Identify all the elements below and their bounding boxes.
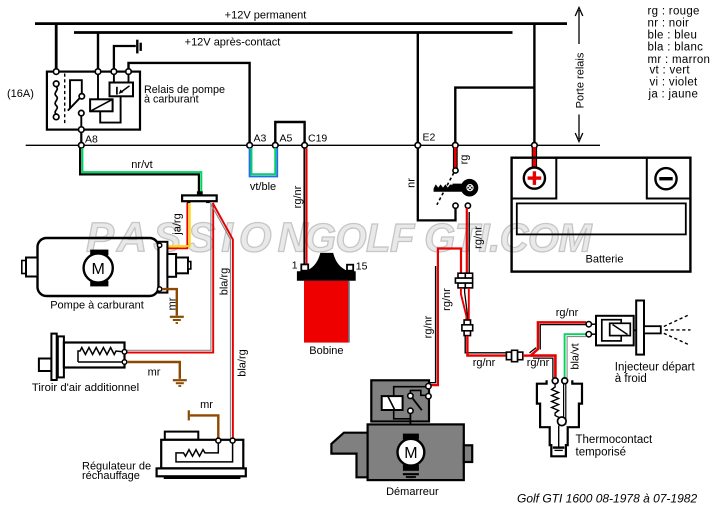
svg-text:M: M — [404, 445, 417, 462]
tiroir terminal circles — [122, 350, 127, 355]
wire bla/rg from bar to regulateur — [210, 203, 230, 438]
svg-text:temporisé: temporisé — [576, 447, 627, 459]
svg-text:nr/vt: nr/vt — [131, 159, 152, 171]
regulateur internal resistor — [176, 443, 233, 462]
demarreur left bracket — [331, 433, 367, 478]
svg-text:rg/nr: rg/nr — [556, 307, 579, 319]
wire rg/nr connector 3 to branch — [523, 354, 531, 356]
wire bla/vt thermocontact to injecteur — [565, 334, 587, 378]
wire rail2 to node E2 — [417, 33, 419, 146]
wire node A5 to node C19 bracket — [275, 122, 304, 145]
svg-text:mr: mr — [200, 399, 213, 411]
wire rg branch to demarreur and connector 1 — [431, 249, 461, 386]
injecteur spray dashes — [664, 315, 691, 345]
svg-text:vt : vert: vt : vert — [650, 64, 691, 76]
svg-text:à carburant: à carburant — [144, 94, 199, 106]
battery box — [512, 158, 691, 272]
svg-text:bla/vt: bla/vt — [570, 343, 582, 369]
demarreur solenoid coil — [382, 396, 403, 410]
bobine pin 15 — [347, 265, 353, 271]
svg-text:rg/nr: rg/nr — [423, 315, 435, 338]
connector bar (junction strip) — [197, 191, 203, 195]
thermocontact pin circles — [552, 378, 558, 384]
regulateur de rechauffage body — [165, 432, 199, 440]
wire rail1 to battery feed — [533, 24, 535, 146]
svg-text:bla : blanc: bla : blanc — [648, 42, 704, 54]
wire mr from tiroir to ground — [127, 362, 187, 386]
wire battery feed to ignition key feed — [455, 88, 534, 146]
thermocontact heater resistor — [552, 384, 560, 418]
svg-text:nr : noir: nr : noir — [648, 17, 690, 29]
demarreur solenoid contact circles — [408, 384, 431, 414]
wire rail2 to relay pin 2 — [97, 33, 99, 72]
bus line (plate rail) — [26, 144, 600, 146]
svg-text:rg/nr: rg/nr — [441, 288, 453, 311]
bobine black cap — [297, 253, 356, 281]
svg-text:vt/ble: vt/ble — [250, 181, 276, 193]
connector 2 inline connector — [462, 320, 473, 336]
svg-text:Démarreur: Démarreur — [386, 486, 439, 498]
svg-text:mr: mr — [166, 297, 178, 310]
wire bla/rg from bar to tiroir — [127, 203, 211, 350]
wire +12V permanent rail — [35, 22, 567, 25]
svg-text:15: 15 — [356, 261, 368, 273]
node A3 — [247, 143, 253, 149]
wire nr from E2 to key — [418, 148, 456, 220]
regulateur terminal circles — [216, 438, 221, 443]
wire rail1 to relay pin 1 — [55, 24, 58, 72]
wire rg to key top contact — [453, 147, 458, 169]
wire ja/rg from bar to pump — [162, 203, 187, 248]
svg-text:(16A): (16A) — [7, 88, 34, 100]
injecteur pin stubs — [592, 323, 597, 325]
demarreur motor M — [398, 439, 425, 466]
svg-text:ja/rg: ja/rg — [172, 213, 184, 235]
svg-text:rg: rg — [459, 155, 471, 165]
thermocontact contact circle — [558, 417, 567, 426]
thermocontact body outline — [537, 380, 582, 456]
svg-text:bla/rg: bla/rg — [237, 349, 249, 377]
injecteur pin circles — [586, 322, 591, 327]
connector 1 double inline connector — [455, 273, 472, 288]
svg-text:rg/nr: rg/nr — [292, 185, 304, 208]
wires connector 1 to connector 2 — [461, 288, 467, 320]
svg-text:bla/rg: bla/rg — [219, 268, 231, 296]
svg-text:M: M — [92, 261, 105, 278]
svg-text:mr: mr — [148, 367, 161, 379]
svg-text:Injecteur départ: Injecteur départ — [615, 362, 696, 374]
wire rg/nr branch to thermocontact — [531, 356, 555, 378]
pump motor M — [84, 253, 113, 282]
svg-text:rg/nr: rg/nr — [473, 226, 485, 249]
wire mr from pump to ground — [162, 289, 184, 323]
relay pin circles — [53, 69, 131, 133]
demarreur solenoid internal wires — [394, 387, 426, 434]
ignition key dashed actuator — [437, 173, 454, 205]
demarreur motor brushes — [403, 434, 419, 440]
wire relay pin A8 to bus — [80, 132, 82, 143]
wire vt/ble from A3 to A5 — [250, 148, 278, 176]
injecteur body — [596, 316, 634, 346]
node battery feed — [532, 143, 538, 149]
thermocontact lower electrode — [558, 426, 560, 447]
svg-text:1: 1 — [292, 260, 298, 272]
node A8 — [79, 143, 85, 149]
svg-text:ble : bleu: ble : bleu — [648, 29, 698, 41]
svg-text:Tiroir d'air additionnel: Tiroir d'air additionnel — [32, 382, 139, 394]
relay K1 ground symbol — [114, 40, 141, 69]
fuel pump body — [38, 238, 159, 296]
wire relay pin 4 to node A3 — [129, 63, 250, 145]
svg-text:Thermocontact: Thermocontact — [576, 434, 654, 446]
pump inlet left — [22, 261, 26, 274]
pump motor brushes — [90, 250, 108, 256]
bobine red body — [304, 281, 349, 343]
battery plus terminal — [524, 168, 545, 189]
ignition key silhouette — [434, 184, 462, 192]
injecteur flange — [634, 329, 637, 331]
svg-text:Bobine: Bobine — [309, 345, 343, 357]
thermocontact bimetal strip — [563, 384, 565, 425]
svg-text:nr: nr — [406, 178, 418, 188]
battery minus terminal — [655, 168, 676, 189]
svg-text:E2: E2 — [423, 132, 436, 144]
node circles on bus — [79, 143, 538, 149]
svg-text:+12V après-contact: +12V après-contact — [185, 37, 281, 49]
relay K1 fuel pump relay box — [47, 72, 140, 130]
porte relais down arrow — [575, 115, 583, 142]
relay coil — [97, 74, 99, 99]
svg-text:C19: C19 — [308, 133, 327, 145]
demarreur main body — [368, 424, 464, 480]
svg-text:rg/nr: rg/nr — [527, 357, 550, 369]
demarreur solenoid box — [371, 380, 429, 421]
svg-text:réchauffage: réchauffage — [82, 470, 140, 482]
svg-text:Porte relais: Porte relais — [575, 52, 587, 108]
svg-text:à froid: à froid — [615, 373, 647, 385]
svg-text:+12V permanent: +12V permanent — [225, 10, 307, 22]
porte relais up arrow — [575, 8, 583, 45]
wire rg/nr from key to connector 1 — [468, 212, 470, 273]
wire rg/nr from C19 to bobine pin 1 — [303, 148, 305, 264]
svg-text:A3: A3 — [254, 133, 267, 145]
dashed separator inside relay — [64, 74, 66, 125]
svg-text:rg : rouge: rg : rouge — [648, 6, 700, 18]
pump right terminal block — [159, 242, 168, 293]
wire connector 2 to connector 3 — [465, 336, 506, 353]
injecteur nozzle — [644, 326, 661, 333]
svg-text:vi : violet: vi : violet — [650, 76, 699, 88]
fuse (16A) inside relay — [55, 87, 57, 115]
demarreur right tab — [464, 445, 472, 462]
node A5 — [273, 143, 279, 149]
legend wire colour codes — [648, 6, 711, 101]
svg-text:GOLF GTI.COM: GOLF GTI.COM — [305, 217, 593, 261]
relay diode box — [113, 74, 115, 82]
node C19 — [302, 143, 308, 149]
pump nozzle — [167, 254, 176, 277]
tiroir internal resistor — [78, 348, 122, 363]
svg-text:Golf GTI 1600 08-1978 à 07-198: Golf GTI 1600 08-1978 à 07-1982 — [517, 492, 697, 506]
injecteur valve box — [610, 323, 631, 335]
tiroir d'air additionnel body — [39, 359, 52, 372]
wire rg bus to battery plus — [532, 147, 537, 167]
connector 3 inline connector — [506, 350, 522, 361]
demarreur ground — [403, 474, 419, 479]
svg-text:ja : jaune: ja : jaune — [648, 89, 699, 101]
svg-text:A5: A5 — [280, 133, 293, 145]
svg-text:Pompe à carburant: Pompe à carburant — [50, 300, 144, 312]
wire nr/vt from A8 to connector bar — [80, 148, 199, 194]
bobine pin 1 — [301, 264, 308, 270]
relay switch contact — [68, 80, 82, 127]
svg-text:rg/nr: rg/nr — [473, 357, 496, 369]
wire mr from regulateur — [189, 410, 219, 438]
node E2 — [415, 143, 421, 149]
wire +12V apres-contact rail — [74, 31, 513, 34]
pump terminal circles — [157, 243, 161, 247]
svg-text:A8: A8 — [85, 134, 98, 146]
svg-text:Batterie: Batterie — [586, 254, 624, 266]
node key feed — [453, 143, 459, 149]
key contact circles — [453, 168, 458, 173]
wire rg/nr branch to injecteur — [530, 348, 537, 353]
